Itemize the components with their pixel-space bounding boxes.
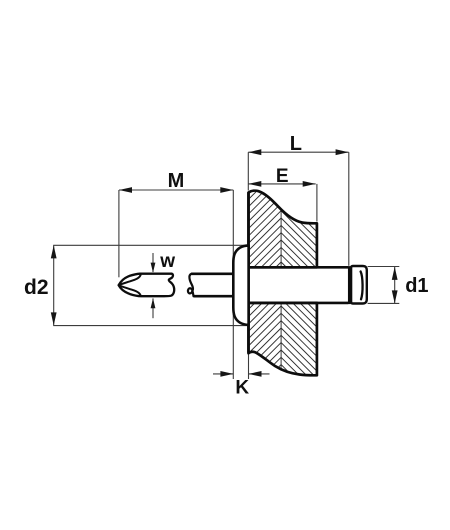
svg-text:E: E [276,166,289,187]
svg-text:d1: d1 [405,275,428,297]
svg-text:w: w [159,251,175,272]
svg-text:M: M [168,170,185,192]
svg-text:L: L [290,133,302,155]
svg-text:K: K [235,378,249,399]
svg-text:d2: d2 [24,276,49,299]
